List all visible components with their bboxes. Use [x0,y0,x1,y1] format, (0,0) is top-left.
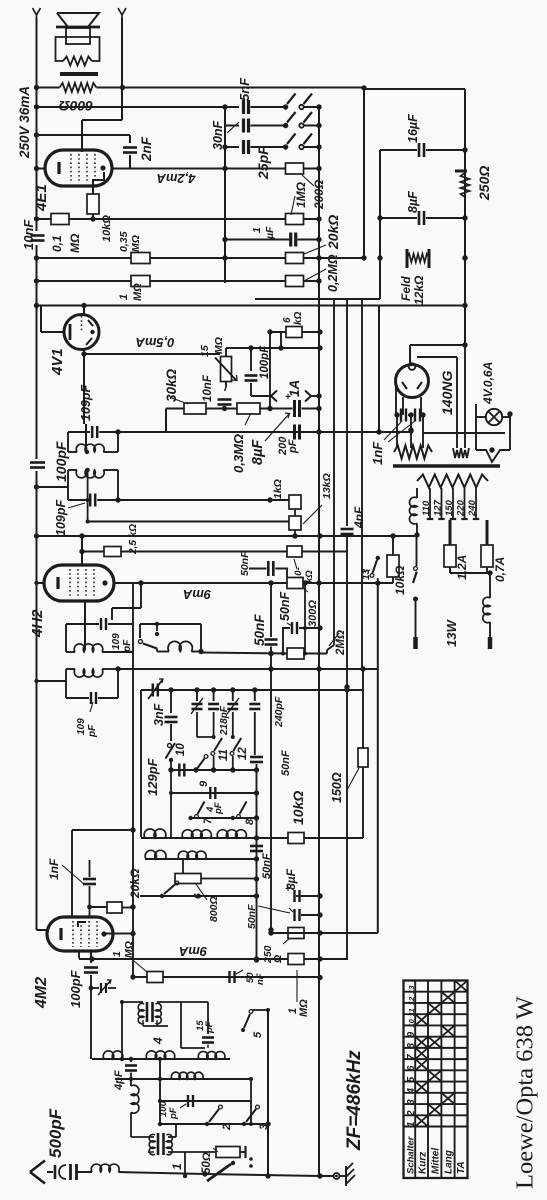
switch 12 [230,752,234,756]
svg-text:10: 10 [407,1018,416,1027]
wire v256 dots [254,767,259,772]
core bar heavy [393,464,500,467]
svg-text:12: 12 [407,996,416,1005]
resistor 0,35Mohm [131,253,150,264]
svg-text:1nF: 1nF [47,858,61,880]
svg-text:20kΩ: 20kΩ [128,868,142,899]
wire bus268 [267,1010,269,1176]
terminal antenna-left (Y) [33,8,37,15]
svg-text:250V 36mA: 250V 36mA [17,86,32,159]
switch 7b [188,816,192,820]
svg-text:MΩ: MΩ [298,999,310,1017]
svg-text:0,5mA: 0,5mA [135,335,174,350]
resistor 150ohm [358,748,368,767]
capacitor 50nF-g [228,971,230,983]
coil ant4 [171,1072,203,1079]
wire v270 [269,332,271,409]
wire bus347 lower [346,540,348,960]
wire bus364 [363,88,365,258]
IF box lower bottom [68,499,86,501]
wire row1124 [160,1123,268,1125]
coil mains-cord [483,597,490,622]
svg-text:4: 4 [151,1037,165,1045]
transformer taps [429,488,431,518]
svg-text:150Ω: 150Ω [330,772,344,803]
capacitor 100pF-a [30,461,45,464]
wire v171b [170,770,172,837]
svg-text:10kΩ: 10kΩ [290,791,306,825]
resistor 1kohm-osc [289,495,301,509]
wire row218 8uF [380,217,417,219]
wire row135 [37,134,131,136]
wire row126 [225,125,239,127]
svg-text:Ω: Ω [272,955,284,964]
wire row147 [225,146,239,148]
wire left to box4 [37,680,67,682]
wire row536 [37,535,418,537]
tube 4V1 cathode [69,324,72,340]
capacitor 50nF-f [293,909,295,921]
antenna arrow [30,1161,45,1173]
wire heater loop [417,356,457,358]
capacitor 100pF-c [90,959,92,964]
capacitor 5nF [242,100,245,114]
svg-text:4H2: 4H2 [29,609,46,638]
svg-text:50Ω: 50Ω [201,1152,213,1174]
svg-text:Schalter: Schalter [406,1135,417,1174]
antenna hook [59,1165,66,1179]
switch contact c [283,144,288,149]
wire T1 leads [131,1136,154,1138]
antenna stub [47,1171,53,1173]
capacitor 109pF-a [91,426,94,438]
svg-text:3: 3 [258,1124,270,1130]
svg-text:13kΩ: 13kΩ [321,473,333,499]
wire row487 [37,486,69,488]
resistor Feld 12kohm [406,249,409,268]
svg-text:+: + [285,392,291,403]
wire anode 4M2 [103,933,133,935]
wire v305 [304,583,306,654]
wire left rail lower [36,306,38,460]
wire v203 [200,624,202,652]
capacitor 50nF-d [250,756,263,759]
capacitor 218pF-b [232,690,234,701]
wire lamp frame [475,404,477,450]
wire left rail [36,88,38,231]
coil IF-lower [68,469,77,471]
capacitor 109pF-b [89,494,92,507]
svg-text:129pF: 129pF [145,757,160,796]
svg-text:300Ω: 300Ω [307,600,319,627]
switch 10 [168,744,172,748]
wire to rect anode [462,342,467,347]
wire fuse join [450,572,490,574]
wire row830 [72,829,133,831]
svg-text:16µF: 16µF [406,114,420,143]
svg-text:9mA: 9mA [183,587,211,602]
wire grid drops 4M2 [71,830,73,917]
tube 140NG [396,365,429,398]
svg-text:50nF: 50nF [252,614,267,646]
wire row107 [37,106,240,108]
wire 4M2 bottom legs [78,951,80,959]
wire rail303 [255,298,380,300]
svg-text:2,5 kΩ: 2,5 kΩ [128,524,139,555]
svg-text:MΩ: MΩ [130,235,142,252]
capacitor 240pF [254,690,256,701]
table frame Schalter [404,981,468,1179]
winding primary zig [417,475,488,488]
svg-text:109pF: 109pF [54,500,68,536]
box 15pF [180,1002,182,1048]
svg-text:15: 15 [199,345,211,357]
resistor 50ohm [185,1151,216,1153]
wire row977 [133,976,320,978]
IF box upper [67,432,69,452]
table X marks [415,1115,428,1126]
fuse clip right [305,391,311,397]
svg-text:50nF: 50nF [278,591,292,621]
lamp 4V 0,6A [486,409,502,425]
resistor 10kohm-b [287,546,302,557]
resistor 20kohm-row258 [286,253,304,264]
svg-text:MΩ: MΩ [213,337,225,354]
capacitor 30nF [242,119,245,133]
transformer core bar [60,72,98,76]
svg-text:0,35: 0,35 [118,231,130,252]
svg-text:10kΩ: 10kΩ [393,565,407,595]
coil mains-left [416,488,418,498]
svg-text:4M2: 4M2 [33,977,50,1009]
resistor 600ohm zig [60,83,97,92]
wire row896 [140,895,257,897]
capacitor 4nF [346,299,348,526]
wire row1059 [92,1058,230,1060]
svg-text:30kΩ: 30kΩ [164,368,179,402]
wire v141 [140,583,142,608]
svg-text:4nF: 4nF [352,506,366,529]
capacitor 50nF-b [291,622,293,634]
svg-text:50nF: 50nF [280,750,292,776]
wire grid drop 4E1 [82,119,122,121]
svg-text:1MΩ: 1MΩ [294,181,308,208]
wire v363 [362,669,364,838]
svg-text:30nF: 30nF [211,120,225,150]
tube 140NG electrodes [402,382,407,389]
svg-text:pF: pF [204,1021,215,1034]
svg-text:140NG: 140NG [439,371,455,415]
wire 4H2 bottom [84,601,86,650]
wire T4 leads [122,1001,143,1003]
svg-text:1: 1 [118,294,130,300]
capacitor 50nF-a [249,568,267,570]
svg-text:4: 4 [406,1088,417,1095]
wire v393 rect13 [392,536,394,555]
ground terminal [334,1173,340,1179]
wire v251 [250,1079,252,1124]
resistor 1Mohm-row219 [286,214,304,225]
svg-text:kΩ: kΩ [304,570,315,583]
resistor 0,2Mohm [286,276,304,287]
terminal right (Y) [118,8,122,15]
svg-text:3: 3 [406,1099,417,1105]
resistor 6kohm [270,331,286,333]
wire row628 [283,628,290,654]
svg-text:8µF: 8µF [284,868,298,890]
svg-text:kΩ: kΩ [293,311,304,325]
wire row354 [84,353,220,355]
wire IF center tap [87,470,89,500]
svg-text:pF: pF [168,1107,179,1120]
svg-text:5: 5 [252,1031,264,1038]
capacitor 129pF [178,764,181,777]
wire row770 [171,769,257,771]
capacitor 1nF-a [394,412,399,417]
svg-text:9mA: 9mA [179,944,207,959]
svg-text:2: 2 [221,1124,233,1131]
wire block left side [140,690,142,837]
svg-text:12: 12 [237,747,249,760]
svg-text:0,7A: 0,7A [493,557,507,582]
svg-text:Kurz: Kurz [418,1152,429,1174]
svg-text:13W: 13W [444,619,459,647]
svg-text:MΩ: MΩ [123,941,135,958]
capacitor 1uF [225,239,289,241]
coil ant2 [146,1051,175,1059]
resistor 0,3Mohm [237,403,260,414]
svg-text:10nF: 10nF [202,374,214,402]
wire row818 [191,817,257,819]
svg-text:11: 11 [218,749,230,761]
svg-text:109pF: 109pF [79,385,93,421]
wire rail to ground [320,1175,333,1177]
wire pot bottom [225,382,227,388]
svg-text:4,2mA: 4,2mA [156,171,196,186]
wire row654 [201,653,287,654]
wire row150 16uF [380,149,417,151]
svg-text:109: 109 [111,633,122,650]
wire v133 [132,624,134,652]
resistor 250ohm-b [288,928,304,939]
capacitor 10nF [31,234,45,237]
pot 15Mohm [221,357,232,382]
ground dots 50ohm [249,1157,253,1161]
svg-text:0,3MΩ: 0,3MΩ [231,434,246,473]
svg-text:0,2MΩ: 0,2MΩ [326,254,340,292]
svg-text:pF: pF [287,439,299,454]
svg-text:3nF: 3nF [152,703,166,726]
capacitor 100pF-d [187,1095,189,1107]
switch 7a [139,640,143,644]
wire row933 [271,932,378,934]
IF box upper top [68,431,90,433]
transformer T1 core [157,1133,160,1155]
svg-text:6: 6 [192,893,204,899]
svg-text:220: 220 [456,499,467,517]
wire row623 [140,623,201,625]
wire top right rail [364,88,465,90]
transformer winding zig [63,57,92,66]
svg-text:50nF: 50nF [261,853,273,879]
svg-text:Mittel: Mittel [431,1148,442,1174]
switch mains [416,537,418,566]
svg-text:ZF=486kHz: ZF=486kHz [344,1050,365,1151]
svg-text:1: 1 [111,951,123,957]
wire 4V1 cathode [41,331,64,333]
transformer T4 coils [138,1003,144,1023]
capacitor 4pF-a [130,1059,132,1062]
coil band3 [217,830,246,838]
wire row88 [97,87,365,89]
resistor 300ohm [287,578,303,589]
svg-text:2MΩ: 2MΩ [335,630,347,656]
svg-text:pF: pF [213,802,224,815]
resistor 20kohm [107,902,122,913]
ground symbol [345,1166,347,1186]
wire row219 [37,218,52,220]
fuse clip left [271,391,277,397]
winding fork a [453,448,461,458]
wire tube-to-coil [85,424,87,452]
svg-text:150: 150 [444,499,455,516]
svg-text:4V1: 4V1 [49,348,66,376]
capacitor 50nF-c [270,583,272,637]
coil IF3 [66,651,75,653]
svg-text:Loewe/Opta 638 W: Loewe/Opta 638 W [512,995,539,1189]
svg-text:9: 9 [198,780,210,787]
IF box4 [65,669,67,698]
svg-text:4E1: 4E1 [33,184,50,212]
svg-text:10: 10 [175,743,187,756]
fuse 1,2A [449,520,452,545]
wire v133 long [132,652,134,977]
switch 13 [376,556,380,560]
svg-text:100pF: 100pF [53,441,69,482]
svg-text:µF: µF [264,226,276,240]
capacitor 3nF [170,690,172,713]
wire row168 left [37,168,46,170]
speaker horn [57,13,99,27]
wire bus320 [318,107,320,1176]
svg-text:218pF: 218pF [219,705,230,736]
capacitor 1nF-c [89,860,91,877]
IF box lower [67,470,69,500]
tube 4V1 electrodes [88,320,93,326]
switch contact b [283,123,288,128]
capacitor 1nF-b [411,414,413,416]
svg-text:2nF: 2nF [139,136,154,162]
speaker magnet [66,28,90,44]
resistor 800ohm [182,859,184,874]
wire row348 [225,348,227,357]
svg-text:TA: TA [456,1161,467,1174]
wire row959 [79,958,347,960]
resistor 10kohm [87,194,99,214]
switch 8b [231,816,235,820]
coil ant1 [103,1051,123,1059]
wire row669 long [118,668,378,670]
winding fork b [461,448,469,458]
wire 4V1 osc rows [118,499,289,501]
svg-text:1: 1 [170,1163,184,1170]
output transformer box [56,37,100,61]
transformer T1 coils [149,1134,155,1154]
svg-text:800Ω: 800Ω [208,896,220,922]
svg-text:240: 240 [467,499,478,517]
wire v226 [224,107,226,283]
switch 11 [211,752,215,756]
svg-text:20kΩ: 20kΩ [325,215,341,250]
wire 600ohm left [37,87,60,89]
wire rail308 [37,305,466,307]
svg-text:4pF: 4pF [113,1070,125,1091]
coil IF-upper [68,451,77,453]
capacitor 16uF [418,143,421,157]
capacitor 109pF-d [66,697,89,699]
wire bus362 [361,299,363,669]
wire tube legs [395,384,397,415]
tube 4H2 [44,565,114,601]
svg-text:240pF: 240pF [273,696,285,728]
capacitor 50nF-e [250,845,263,848]
capacitor 8uF-a [418,211,421,225]
switch 3 [242,1122,246,1126]
resistor 30kohm [184,403,206,414]
resistor 1Mohm-c [288,954,304,965]
switch 5 [241,1028,245,1032]
coil ant-in [91,1164,119,1172]
svg-text:1nF: 1nF [370,441,385,465]
IF box3 top [66,623,99,625]
svg-text:5nF: 5nF [237,77,252,101]
coil band5 [178,851,206,859]
svg-text:100pF: 100pF [68,969,83,1008]
wire row1101 [160,1100,251,1102]
resistor 2,5kohm [82,551,104,553]
wire row433 to lamp [423,432,505,434]
capacitor 25pF [242,140,245,154]
resistor 200ohm [286,163,304,174]
wire v281 [280,332,282,348]
coil band2 [182,830,211,838]
svg-text:MΩ: MΩ [68,233,82,253]
svg-text:Lang: Lang [444,1150,455,1174]
svg-text:MΩ: MΩ [132,283,144,301]
wire bus379 [378,306,380,433]
fuse 0,7A [486,520,489,545]
svg-text:250Ω: 250Ω [476,166,492,201]
svg-text:8µF: 8µF [406,191,420,213]
tube 4V1 [64,315,99,350]
svg-text:1: 1 [251,227,263,233]
svg-text:pF: pF [122,639,133,653]
resistor 1Mohm-a [131,276,150,287]
wire bus380 [379,150,381,299]
wire 4H2 left [37,582,45,584]
wire filament taps [396,415,398,448]
capacitor 500pF [69,1164,72,1180]
trimmer 4M2 [91,987,99,989]
svg-text:1,2A: 1,2A [455,555,469,580]
capacitor 100pF-b [250,348,252,371]
resistor 250ohm field zig [455,170,467,173]
winding lamp [476,450,510,462]
svg-text:4V.0,6A: 4V.0,6A [481,362,495,405]
coil vert ant [130,1079,132,1086]
tube 4E1 [45,150,112,186]
switch contact a [283,104,288,109]
